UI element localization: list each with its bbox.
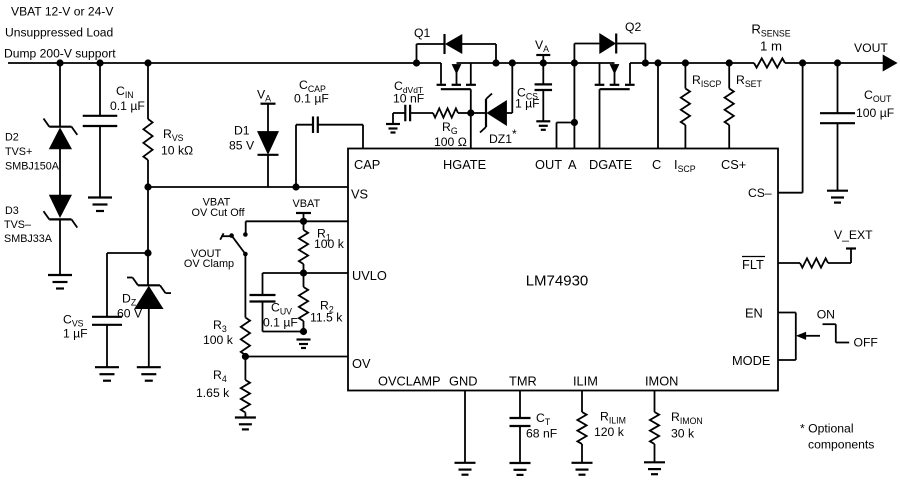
svg-text:RG: RG	[442, 120, 458, 136]
label RIMON 30k	[671, 410, 703, 441]
svg-text:1 µF: 1 µF	[515, 97, 540, 111]
pin C	[652, 157, 661, 172]
label CT 68nF	[526, 411, 557, 441]
svg-text:DZ1*: DZ1*	[489, 127, 517, 146]
label DZ1 asterisk	[489, 127, 517, 146]
svg-text:68 nF: 68 nF	[526, 427, 557, 441]
svg-text:C: C	[652, 157, 661, 172]
ground under DZ	[137, 367, 161, 381]
label R2 11.5k	[310, 299, 343, 325]
wire rail Q2 to RSENSE	[630, 62, 754, 64]
capacitor CVS 1uF	[92, 253, 148, 367]
label CIN 0.1uF	[110, 84, 145, 113]
label OFF	[854, 336, 878, 350]
pin EN	[745, 306, 763, 321]
node junction R3-R4-OV	[242, 353, 249, 360]
node junction RVS-VS	[144, 183, 151, 190]
ground under D3	[48, 275, 72, 289]
svg-text:CUV: CUV	[271, 301, 292, 317]
capacitor COUT 100uF	[820, 63, 855, 191]
node junction HGATE-RG-DZ1	[467, 109, 474, 116]
pin CS-	[748, 186, 772, 200]
ground under RIMON	[644, 462, 665, 474]
resistor R4 1.65k	[241, 357, 250, 418]
svg-text:CS–: CS–	[748, 186, 772, 200]
label D3 TVS- SMBJ33A	[4, 205, 53, 245]
label VOUT	[854, 41, 888, 55]
resistor RSENSE 1m	[754, 58, 785, 67]
svg-text:OUT: OUT	[535, 157, 562, 172]
svg-text:OV Cut Off: OV Cut Off	[191, 207, 245, 219]
resistor FLT pullup	[778, 258, 851, 267]
diode DZ zener 60V	[127, 253, 171, 367]
svg-text:30 k: 30 k	[671, 427, 695, 441]
svg-text:IMON: IMON	[645, 374, 678, 389]
label RILIM 120k	[594, 410, 626, 440]
label D2 TVS+ SMBJ150A	[5, 132, 60, 173]
pin GND	[449, 374, 477, 389]
transistor Q2 NMOS	[595, 63, 635, 149]
wire OV net	[245, 356, 348, 358]
svg-text:ILIM: ILIM	[573, 374, 598, 389]
label LM74930	[526, 273, 589, 290]
svg-text:1 µF: 1 µF	[63, 327, 88, 341]
svg-text:TVS–: TVS–	[4, 219, 31, 231]
pin FLT with overline	[742, 257, 765, 273]
ground for CdVdT	[386, 113, 400, 133]
pin IMON	[645, 374, 678, 389]
node ON-OFF selector arrow	[797, 332, 820, 339]
resistor RSET	[725, 63, 734, 149]
ground under CCS	[536, 121, 550, 130]
pin OUT	[535, 157, 562, 172]
node junction R2-CUV-gnd	[300, 328, 307, 335]
svg-text:1 m: 1 m	[760, 39, 782, 54]
ground under R4	[235, 418, 256, 430]
wire A pin to VA rail	[573, 63, 575, 149]
label R4 1.65k	[196, 368, 230, 400]
label R3 100k	[203, 318, 234, 347]
op-amp U1 LM74930 IC body	[348, 149, 778, 391]
resistor R1 100k	[299, 221, 308, 273]
pin ISCP	[674, 157, 696, 174]
label CCAP 0.1uF	[294, 78, 329, 106]
svg-text:ISCP: ISCP	[674, 157, 696, 174]
label Q2	[625, 20, 641, 34]
label VOUT OV Clamp	[184, 248, 234, 270]
svg-text:10 kΩ: 10 kΩ	[161, 144, 193, 158]
node junction R1-R2-UVLO	[300, 269, 307, 276]
supply VA terminal mid	[535, 38, 550, 63]
resistor RVS 10k	[143, 63, 152, 187]
svg-text:A: A	[568, 157, 577, 172]
node junction RSET on rail	[726, 59, 733, 66]
svg-text:10 nF: 10 nF	[393, 92, 424, 106]
svg-text:OV: OV	[352, 356, 371, 371]
wire rail RSENSE to VOUT	[785, 62, 884, 64]
pin A	[568, 157, 577, 172]
label R1 100k	[314, 227, 345, 251]
resistor R2 11.5k	[299, 273, 308, 332]
svg-text:FLT: FLT	[742, 257, 764, 272]
pin OVCLAMP	[378, 374, 441, 389]
pin CAP	[354, 157, 380, 172]
svg-text:100 Ω: 100 Ω	[434, 135, 467, 149]
label RSET	[736, 73, 763, 89]
wire CS- to rail	[778, 63, 803, 193]
label CdVdT 10nF	[393, 79, 424, 106]
wire GND pin to ground	[464, 391, 466, 463]
label ON	[817, 307, 835, 321]
switch SPDT OV select	[220, 221, 248, 317]
text note: optional components	[800, 422, 874, 452]
svg-text:R3: R3	[213, 318, 227, 334]
svg-text:100 µF: 100 µF	[856, 106, 894, 120]
transistor Q1 NMOS	[437, 63, 476, 149]
wire RVS node down to DZ node	[147, 187, 149, 253]
label RSENSE 1m	[751, 22, 790, 54]
label DZ 60V	[117, 292, 143, 321]
node junction OUT-A	[571, 119, 578, 126]
svg-text:UVLO: UVLO	[352, 268, 387, 283]
resistor R3 100k	[241, 318, 250, 357]
node junction DZ1 on VA rail	[509, 59, 516, 66]
wire VBAT-OV line to IC	[246, 220, 348, 222]
node junction VA-CCS on rail	[540, 59, 547, 66]
svg-text:SMBJ33A: SMBJ33A	[4, 233, 53, 245]
svg-text:COUT: COUT	[864, 88, 892, 104]
label RISCP	[692, 73, 721, 89]
svg-text:TVS+: TVS+	[5, 146, 32, 158]
pin ILIM	[573, 374, 598, 389]
diode D2 TVS+ SMBJ150A	[44, 63, 78, 195]
svg-text:100 k: 100 k	[203, 333, 234, 347]
svg-text:RISCP: RISCP	[692, 73, 721, 89]
label D1 85V	[229, 124, 255, 153]
ground under COUT	[827, 191, 848, 203]
svg-text:EN: EN	[745, 306, 763, 321]
wire VA rail segment	[457, 62, 615, 64]
svg-text:RIMON: RIMON	[671, 410, 703, 426]
node junction COUT on rail	[834, 59, 841, 66]
svg-text:D1: D1	[234, 124, 250, 138]
ground under CIN	[88, 198, 112, 212]
svg-text:LM74930: LM74930	[526, 273, 589, 290]
node junction RVS on rail	[144, 59, 151, 66]
svg-text:Q2: Q2	[625, 20, 641, 34]
svg-text:GND: GND	[449, 374, 477, 389]
node junction Q1 body-diode right	[492, 59, 499, 66]
svg-text:VA: VA	[535, 38, 549, 54]
capacitor CCAP 0.1uF	[296, 116, 363, 187]
label Q1	[414, 26, 430, 40]
wire UVLO net	[263, 272, 349, 274]
node junction RISCP on rail	[682, 59, 689, 66]
pin CS+	[721, 157, 746, 172]
svg-text:0.1 µF: 0.1 µF	[110, 99, 145, 113]
svg-text:V_EXT: V_EXT	[834, 228, 873, 242]
svg-text:CIN: CIN	[116, 84, 134, 100]
wire OUT pin to A node	[557, 123, 575, 149]
ground under CT	[510, 463, 531, 475]
node junction CS- on rail	[799, 59, 806, 66]
svg-text:RSET: RSET	[736, 73, 763, 89]
diode DZ1 zener optional	[471, 63, 513, 133]
svg-text:VOUT: VOUT	[854, 41, 888, 55]
svg-text:0.1 µF: 0.1 µF	[263, 316, 298, 330]
pin TMR	[509, 374, 537, 389]
svg-text:85 V: 85 V	[229, 139, 255, 153]
node junction CIN on rail	[96, 59, 103, 66]
diode D1 85V	[258, 131, 279, 187]
node ON-OFF level symbol	[823, 324, 850, 342]
node junction A on VA rail	[571, 59, 578, 66]
node junction C on rail	[654, 59, 661, 66]
svg-text:Dump 200-V support: Dump 200-V support	[4, 47, 116, 61]
ground under CVS	[95, 367, 119, 381]
pin HGATE	[443, 157, 486, 172]
svg-text:VBAT 12-V or 24-V: VBAT 12-V or 24-V	[11, 5, 114, 19]
svg-text:11.5 k: 11.5 k	[310, 311, 343, 325]
supply VA terminal above D1	[257, 88, 276, 132]
svg-text:* Optional: * Optional	[800, 422, 854, 436]
label CCS 1uF	[515, 86, 540, 111]
label RVS 10k	[161, 127, 193, 158]
svg-text:R4: R4	[213, 368, 227, 384]
svg-text:SMBJ150A: SMBJ150A	[5, 161, 60, 173]
svg-text:1.65 k: 1.65 k	[196, 386, 230, 400]
capacitor CT 68nF	[510, 391, 531, 464]
capacitor CCS 1uF	[535, 63, 553, 121]
pin OV	[352, 356, 371, 371]
svg-text:DGATE: DGATE	[589, 157, 632, 172]
supply V_EXT terminal	[834, 228, 873, 263]
svg-text:D3: D3	[5, 205, 19, 217]
ground under R2	[297, 340, 311, 349]
pin UVLO	[352, 268, 387, 283]
svg-text:RVS: RVS	[163, 127, 184, 143]
supply VBAT terminal above R1	[293, 198, 321, 221]
svg-text:CS+: CS+	[721, 157, 746, 172]
resistor RG 100ohm	[433, 108, 471, 117]
pin MODE	[732, 353, 770, 368]
svg-text:OFF: OFF	[854, 336, 878, 350]
label RG 100ohm	[434, 120, 467, 149]
capacitor CUV 0.1uF	[250, 273, 304, 332]
resistor RISCP	[681, 63, 690, 149]
diode Q2 body diode	[574, 34, 645, 64]
svg-text:RILIM: RILIM	[600, 410, 626, 426]
wire C pin to rail	[657, 63, 659, 149]
svg-text:ON: ON	[817, 307, 835, 321]
svg-text:DZ: DZ	[122, 292, 137, 308]
node VOUT output arrow	[883, 55, 897, 71]
svg-text:Unsuppressed Load: Unsuppressed Load	[5, 26, 113, 40]
svg-text:Q1: Q1	[414, 26, 430, 40]
node junction VBAT on OV line	[300, 218, 307, 225]
wire EN-MODE tie	[778, 313, 796, 361]
text note: VBAT input description	[4, 5, 116, 61]
resistor RIMON 30k	[650, 391, 659, 463]
svg-text:CAP: CAP	[354, 157, 380, 172]
capacitor CdVdT 10nF	[393, 105, 433, 122]
svg-text:HGATE: HGATE	[443, 157, 486, 172]
resistor RILIM 120k	[577, 391, 586, 463]
svg-text:components: components	[808, 438, 874, 452]
svg-text:OV Clamp: OV Clamp	[184, 258, 234, 270]
node junction D2 on rail	[56, 59, 63, 66]
label CVS 1uF	[63, 313, 88, 341]
node junction Q1 body-diode left	[413, 59, 420, 66]
svg-text:D2: D2	[5, 132, 19, 144]
label VBAT OV Cut Off	[191, 197, 245, 220]
wire VBAT input rail segment	[8, 62, 441, 64]
svg-text:60 V: 60 V	[117, 307, 143, 321]
svg-text:TMR: TMR	[509, 374, 537, 389]
node junction DZ-CVS	[144, 249, 151, 256]
svg-text:RSENSE: RSENSE	[751, 22, 790, 39]
capacitor CIN 0.1uF	[83, 63, 118, 198]
diode D3 TVS- SMBJ33A	[44, 195, 78, 275]
svg-text:CT: CT	[536, 411, 551, 427]
svg-text:0.1 µF: 0.1 µF	[294, 92, 329, 106]
wire VS net horizontal	[148, 186, 348, 188]
svg-text:MODE: MODE	[732, 353, 770, 368]
svg-text:VS: VS	[351, 187, 368, 202]
svg-text:120 k: 120 k	[594, 425, 625, 439]
pin VS	[351, 187, 368, 202]
diode Q1 body diode	[417, 34, 497, 63]
svg-text:VBAT: VBAT	[293, 198, 321, 210]
label COUT 100uF	[856, 88, 894, 120]
node junction CCAP-VS	[292, 183, 299, 190]
node junction Q2 body-diode right	[642, 59, 649, 66]
ground under RILIM	[572, 463, 593, 475]
label CUV 0.1uF	[263, 301, 298, 330]
pin DGATE	[589, 157, 632, 172]
ground under GND pin	[455, 463, 476, 475]
svg-text:100 k: 100 k	[314, 237, 345, 251]
svg-text:OVCLAMP: OVCLAMP	[378, 374, 441, 389]
svg-text:VA: VA	[257, 88, 271, 104]
